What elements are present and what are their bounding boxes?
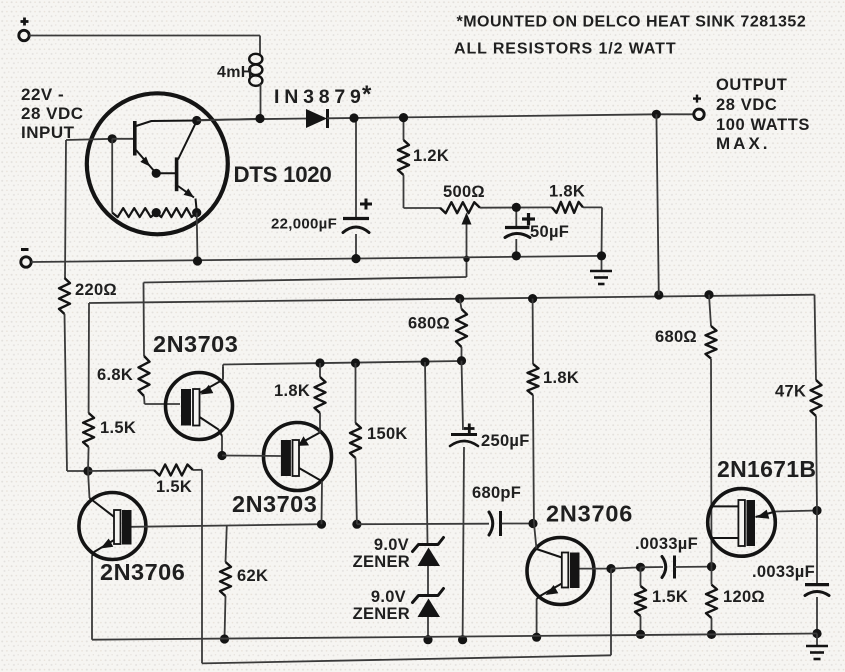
svg-text:100 WATTS: 100 WATTS [716,116,810,134]
svg-text:120Ω: 120Ω [723,588,765,606]
svg-text:*: * [362,81,372,108]
svg-text:2N3706: 2N3706 [546,501,633,527]
svg-text:MAX.: MAX. [716,134,771,153]
svg-text:250µF: 250µF [481,432,530,450]
svg-text:220Ω: 220Ω [75,281,117,299]
svg-text:28 VDC: 28 VDC [716,96,777,114]
svg-text:1.5K: 1.5K [100,419,136,437]
svg-text:1.8K: 1.8K [543,369,579,387]
svg-text:1.2K: 1.2K [413,147,449,165]
svg-text:1.5K: 1.5K [156,478,192,496]
svg-text:680Ω: 680Ω [655,328,697,346]
svg-text:OUTPUT: OUTPUT [716,76,787,94]
svg-text:ALL RESISTORS 1/2 WATT: ALL RESISTORS 1/2 WATT [454,41,677,58]
svg-text:ZENER: ZENER [353,553,410,571]
svg-text:1.8K: 1.8K [549,183,585,201]
svg-text:22,000µF: 22,000µF [271,216,337,233]
svg-text:2N3703: 2N3703 [153,331,238,357]
svg-text:2N1671B: 2N1671B [717,456,816,482]
svg-text:680Ω: 680Ω [408,315,450,333]
svg-text:INPUT: INPUT [21,123,75,142]
svg-text:50µF: 50µF [530,223,569,241]
svg-text:28 VDC: 28 VDC [21,104,84,123]
svg-text:.0033µF: .0033µF [635,535,698,553]
svg-text:22V -: 22V - [21,85,64,104]
svg-text:.0033µF: .0033µF [752,563,815,581]
svg-text:2N3703: 2N3703 [232,491,317,517]
svg-text:62K: 62K [237,567,268,585]
svg-text:IN3879: IN3879 [274,86,366,108]
svg-text:*MOUNTED ON DELCO HEAT SINK 72: *MOUNTED ON DELCO HEAT SINK 7281352 [457,14,807,31]
svg-text:2N3706: 2N3706 [100,559,185,585]
svg-text:ZENER: ZENER [353,605,410,623]
svg-text:4mH: 4mH [217,64,253,81]
svg-text:1.8K: 1.8K [274,382,310,400]
svg-text:47K: 47K [775,383,806,401]
svg-text:9.0V: 9.0V [374,536,409,554]
svg-text:150K: 150K [367,425,408,443]
svg-text:6.8K: 6.8K [97,366,133,384]
svg-text:1.5K: 1.5K [652,588,688,606]
svg-text:680pF: 680pF [472,484,521,502]
svg-text:DTS 1020: DTS 1020 [234,162,332,187]
svg-text:500Ω: 500Ω [443,183,485,201]
svg-text:9.0V: 9.0V [371,588,406,606]
